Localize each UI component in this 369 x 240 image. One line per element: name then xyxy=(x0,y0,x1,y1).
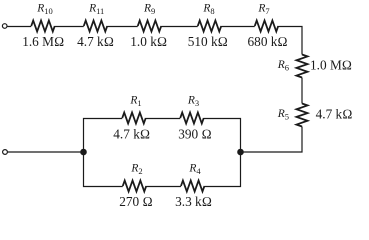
wire xyxy=(221,26,255,28)
wire xyxy=(146,186,181,188)
svg-text:1.6 MΩ: 1.6 MΩ xyxy=(22,34,64,49)
svg-text:R4: R4 xyxy=(188,163,201,177)
svg-text:4.7 kΩ: 4.7 kΩ xyxy=(316,107,353,122)
terminal bottom-left xyxy=(3,150,8,155)
wire xyxy=(241,127,303,153)
resistor R1 xyxy=(122,113,146,124)
resistor R6 xyxy=(297,55,308,78)
wire xyxy=(301,78,303,104)
wire xyxy=(8,151,84,153)
resistor R8 xyxy=(198,21,222,32)
svg-text:R10: R10 xyxy=(36,2,53,16)
wire xyxy=(7,26,31,28)
resistor R10 xyxy=(31,21,55,32)
node left junction xyxy=(80,149,87,156)
svg-text:680 kΩ: 680 kΩ xyxy=(248,34,288,49)
svg-text:390 Ω: 390 Ω xyxy=(178,127,211,142)
svg-text:270 Ω: 270 Ω xyxy=(119,194,152,209)
resistor R7 xyxy=(255,21,279,32)
resistor R4 xyxy=(181,181,205,192)
wire xyxy=(161,26,198,28)
resistor R9 xyxy=(138,21,162,32)
svg-text:1.0 MΩ: 1.0 MΩ xyxy=(310,58,352,73)
wire xyxy=(278,27,302,55)
wire xyxy=(204,119,241,187)
svg-text:R11: R11 xyxy=(88,2,104,16)
wire xyxy=(84,119,123,187)
wire xyxy=(55,26,84,28)
svg-text:3.3 kΩ: 3.3 kΩ xyxy=(175,194,212,209)
svg-text:R8: R8 xyxy=(202,2,214,16)
svg-text:R2: R2 xyxy=(130,163,142,177)
svg-text:R6: R6 xyxy=(277,59,289,73)
wire xyxy=(107,26,138,28)
svg-text:R5: R5 xyxy=(277,108,289,122)
resistor R2 xyxy=(123,181,147,192)
svg-text:R9: R9 xyxy=(143,2,155,16)
svg-text:R3: R3 xyxy=(187,95,199,109)
svg-text:R1: R1 xyxy=(129,95,141,109)
svg-text:510 kΩ: 510 kΩ xyxy=(188,34,228,49)
svg-text:1.0 kΩ: 1.0 kΩ xyxy=(130,34,167,49)
resistor R11 xyxy=(84,21,108,32)
node right junction xyxy=(237,149,244,156)
wire xyxy=(146,118,181,120)
terminal top-left xyxy=(2,24,7,29)
svg-text:R7: R7 xyxy=(257,2,269,16)
svg-text:4.7 kΩ: 4.7 kΩ xyxy=(77,34,114,49)
resistor R5 xyxy=(297,104,308,127)
resistor R3 xyxy=(180,113,204,124)
svg-text:4.7 kΩ: 4.7 kΩ xyxy=(113,127,150,142)
